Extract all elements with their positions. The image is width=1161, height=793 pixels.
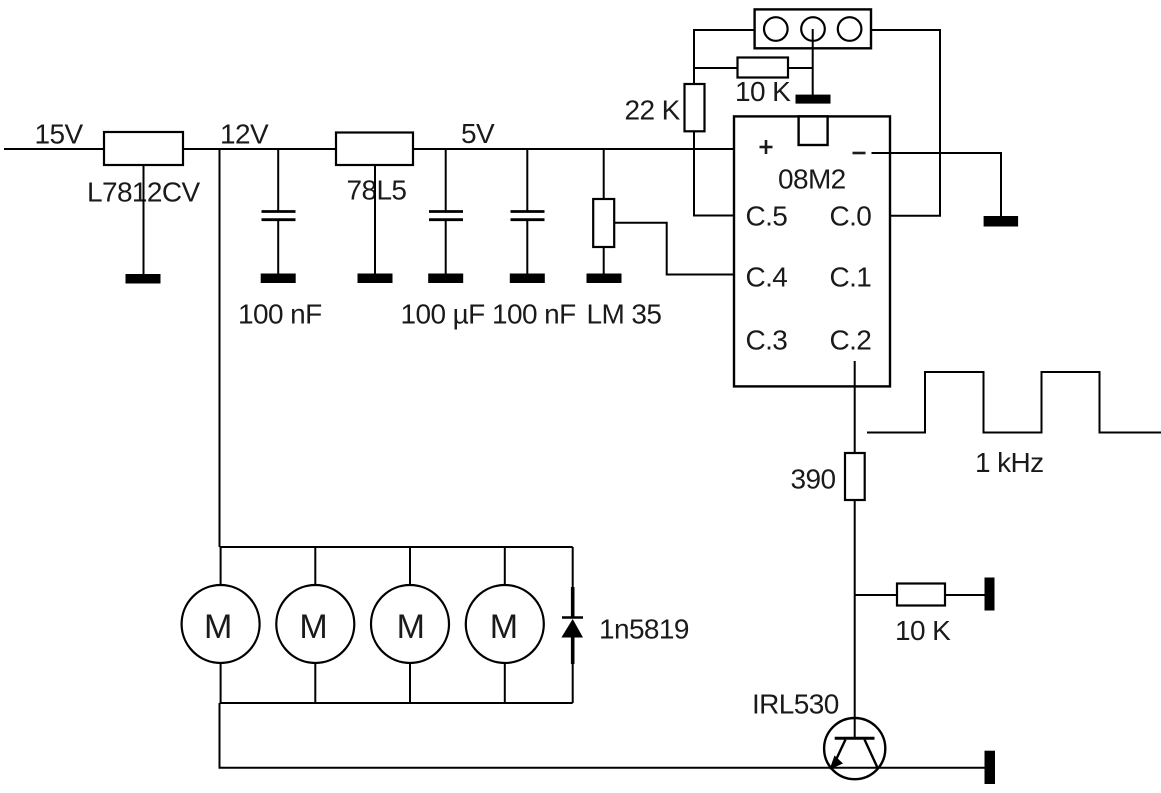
diode D1 triangle [561, 619, 583, 638]
svg-text:390: 390 [791, 464, 836, 495]
wire pot wiper to ground [812, 29, 814, 103]
svg-text:M: M [204, 608, 232, 646]
svg-text:1n5819: 1n5819 [599, 614, 689, 645]
motor M4 leads [504, 547, 506, 703]
wire LM35 output to C.4 [614, 223, 741, 275]
diode D1 cathode bar [562, 616, 583, 619]
motor M2 leads [314, 547, 316, 703]
motor M3 leads [409, 547, 411, 703]
wire 15V input rail [4, 148, 104, 150]
svg-text:22 K: 22 K [625, 95, 681, 126]
resistor R2 10K body [738, 58, 789, 78]
IC 08M2 top notch [799, 116, 828, 145]
svg-text:C.0: C.0 [830, 200, 872, 231]
wire 22K node to 10K resistor [694, 67, 738, 69]
pin + mark [760, 140, 773, 154]
svg-text:100 nF: 100 nF [492, 299, 576, 330]
capacitor C3 100nF plates [511, 212, 545, 220]
ground (minus pin) [984, 216, 1019, 227]
wire 5V rail [413, 148, 758, 150]
svg-text:C.4: C.4 [746, 262, 788, 293]
potentiometer pin 1 circle [764, 17, 788, 41]
motor M1 circle [182, 585, 260, 663]
wire 22K bottom to C.5 pin [694, 131, 741, 215]
svg-text:08M2: 08M2 [778, 164, 846, 195]
svg-text:10 K: 10 K [895, 615, 951, 646]
svg-text:C.3: C.3 [746, 324, 788, 355]
svg-text:1 kHz: 1 kHz [975, 447, 1044, 478]
wire C.2 pin down to 390 resistor [854, 361, 856, 453]
potentiometer pin 3 circle [838, 17, 862, 41]
wire pot right terminal to C.0 [871, 30, 940, 216]
wire 10K to ground [945, 594, 985, 596]
ground (LM35) [587, 274, 622, 284]
capacitor C3 100nF bottom lead [526, 221, 528, 274]
wire LM35 supply lead [603, 149, 605, 199]
diode D1 top lead [572, 547, 574, 587]
svg-text:M: M [397, 608, 425, 646]
potentiometer connector body [755, 9, 871, 48]
wire motor return rail [220, 703, 985, 768]
svg-text:IRL530: IRL530 [752, 689, 839, 720]
svg-text:M: M [299, 608, 327, 646]
sensor LM35 body [593, 199, 614, 247]
svg-text:100 nF: 100 nF [238, 299, 322, 330]
diode D1 thick upper lead [571, 587, 575, 617]
wire 12V branch down to motors [219, 149, 221, 547]
svg-text:12V: 12V [220, 119, 269, 150]
transistor IRL530 left leg [834, 740, 846, 765]
transistor IRL530 base bar [835, 737, 875, 740]
diode D1 bottom lead [572, 664, 574, 703]
capacitor C2 100uF plates [429, 212, 463, 220]
potentiometer pin 2 circle [801, 17, 825, 41]
wire LM35 ground lead [603, 247, 605, 274]
svg-text:10 K: 10 K [735, 76, 791, 107]
ground (78L5) [358, 274, 393, 284]
transistor IRL530 right leg [865, 740, 878, 768]
diode D1 thick lower lead [571, 638, 575, 665]
capacitor C1 100nF plates [262, 212, 296, 220]
wire L7812CV ground lead [143, 165, 145, 274]
ground (C2) [428, 274, 463, 284]
wire 390 to transistor gate [854, 500, 856, 737]
wire 10K to pot wiper [788, 67, 813, 69]
ground (C3) [510, 274, 545, 284]
ground (L7812CV) [126, 274, 161, 284]
wire 12V rail [183, 148, 336, 150]
svg-text:C.5: C.5 [746, 200, 788, 231]
wire 78L5 ground lead [374, 165, 376, 274]
wire gate node to 10K pulldown [855, 594, 897, 596]
regulator 78L5 body [336, 133, 413, 166]
ground (10K pulldown) [985, 578, 995, 611]
capacitor C2 100uF bottom lead [445, 221, 447, 274]
svg-text:LM 35: LM 35 [587, 299, 662, 330]
motor M4 circle [466, 585, 544, 663]
capacitor C2 100uF top lead [445, 149, 447, 211]
ground (C1) [261, 274, 296, 284]
transistor IRL530 circle [824, 718, 885, 779]
svg-text:5V: 5V [461, 118, 495, 149]
svg-text:15V: 15V [35, 119, 84, 150]
motor M3 circle [371, 585, 449, 663]
wire motor top bus [220, 546, 573, 548]
resistor R1 22K body [685, 84, 705, 131]
IC 08M2 body [734, 116, 890, 386]
ground (pot wiper) [796, 95, 831, 104]
wire minus pin to ground [872, 153, 1002, 216]
motor M1 leads [220, 547, 222, 703]
wire potentiometer left terminal to 22K [694, 30, 755, 84]
wire motor bottom bus [220, 702, 573, 704]
ground (source rail) [985, 751, 996, 784]
svg-text:100 µF: 100 µF [401, 299, 485, 330]
svg-text:C.2: C.2 [830, 324, 872, 355]
capacitor C1 100nF top lead [277, 149, 279, 211]
capacitor C1 100nF bottom lead [277, 221, 279, 274]
pin - mark [853, 152, 866, 155]
capacitor C3 100nF top lead [526, 149, 528, 211]
resistor R3 390 body [845, 453, 865, 500]
svg-text:M: M [490, 608, 518, 646]
resistor R4 10K body [897, 584, 945, 606]
regulator L7812CV body [104, 132, 183, 165]
svg-text:C.1: C.1 [830, 262, 872, 293]
transistor IRL530 arrow head [830, 756, 844, 770]
waveform 1 kHz square wave [867, 372, 1161, 433]
svg-text:78L5: 78L5 [347, 175, 407, 206]
motor M2 circle [276, 585, 354, 663]
